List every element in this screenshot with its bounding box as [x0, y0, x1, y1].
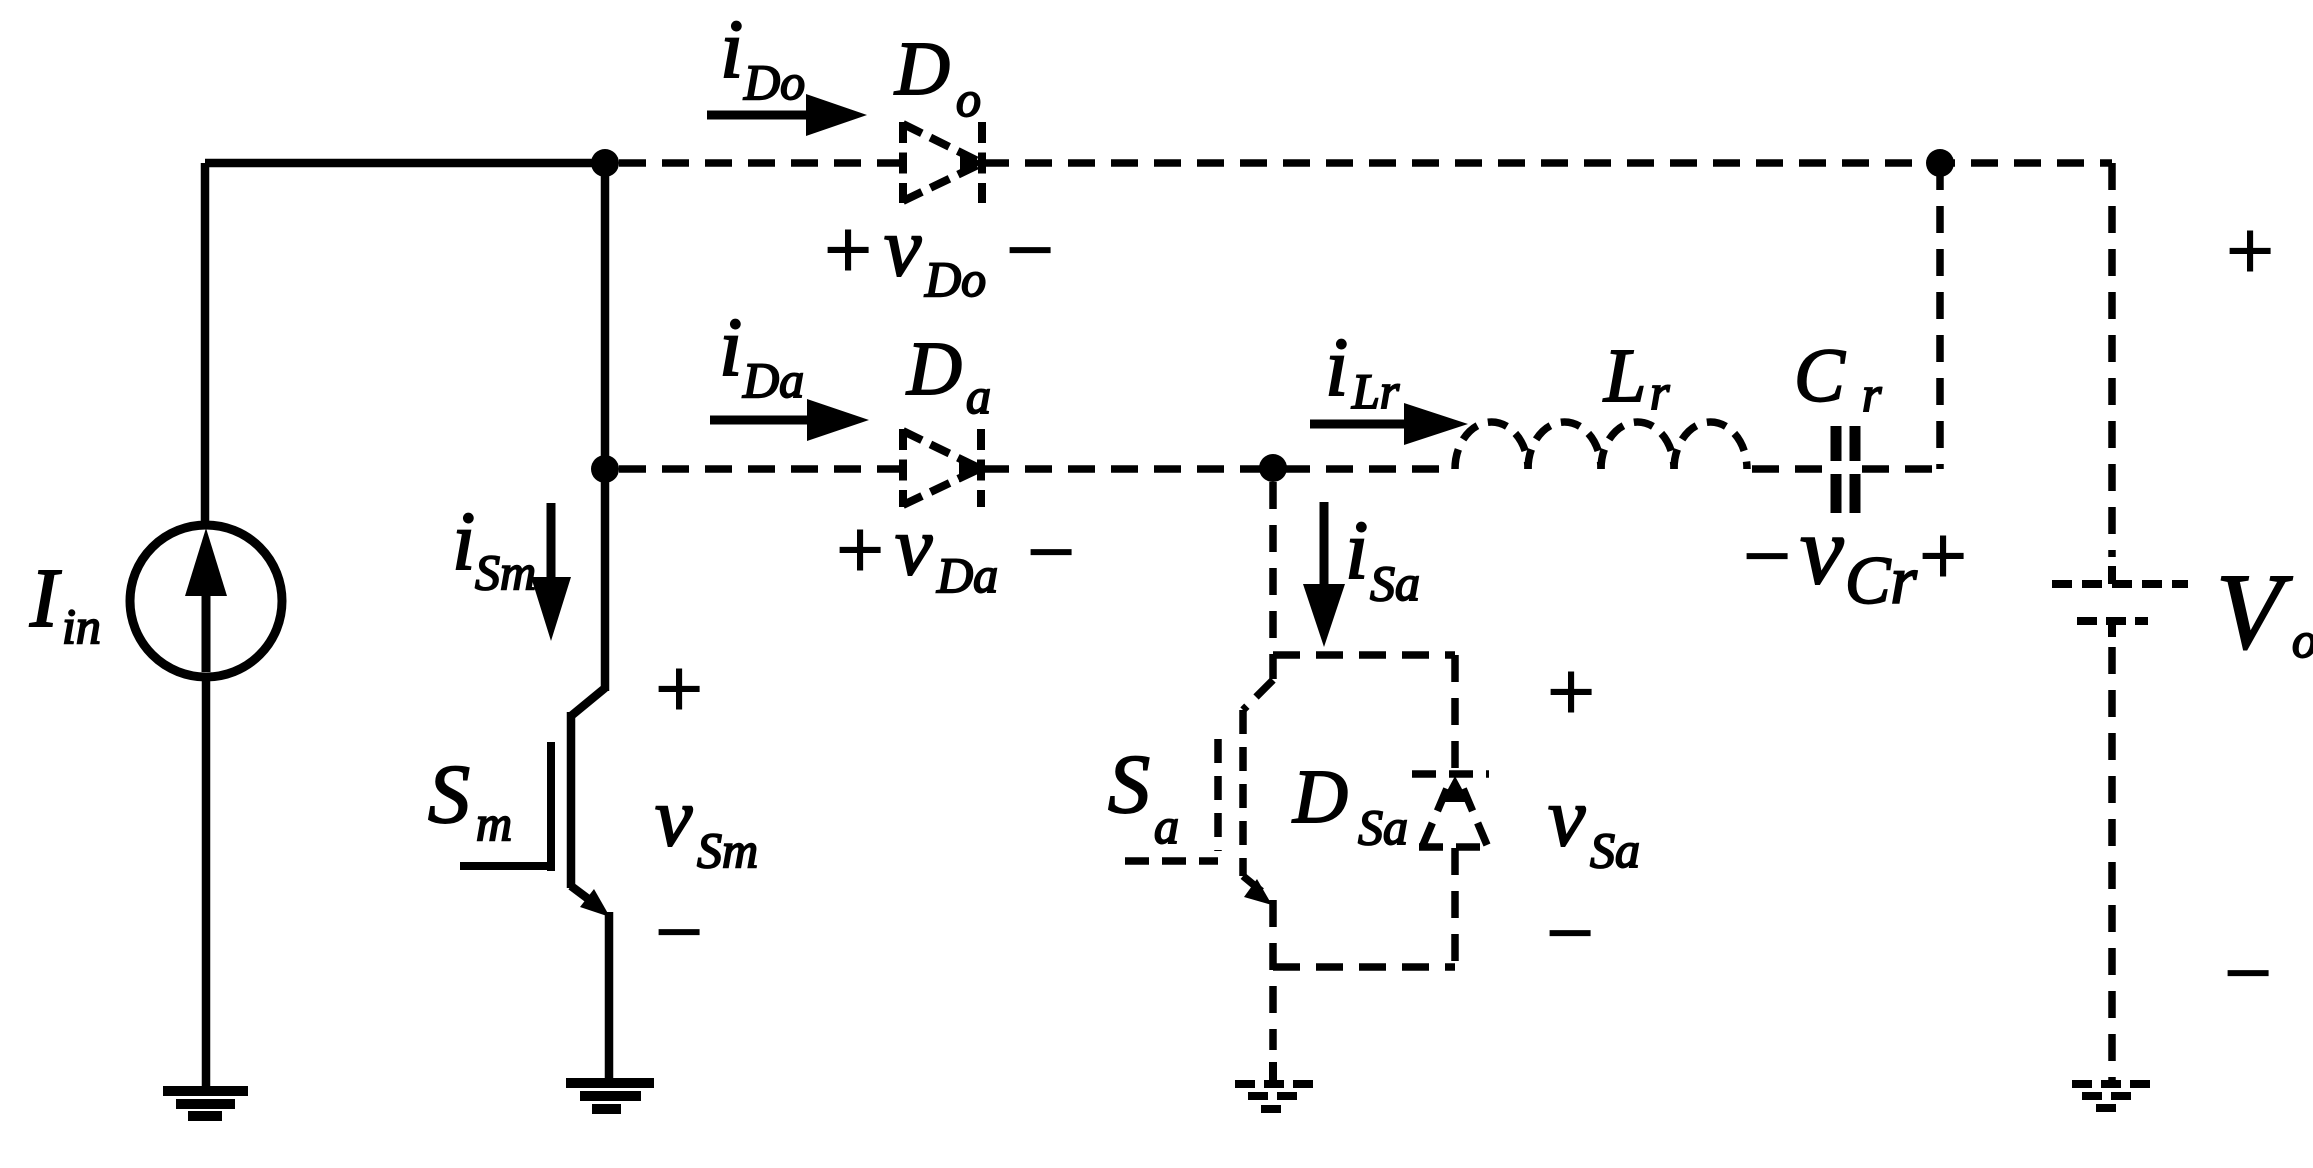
svg-text:Sm: Sm [475, 544, 536, 600]
svg-text:i: i [1345, 504, 1368, 597]
svg-text:+: + [819, 204, 876, 297]
svg-text:−: − [2219, 927, 2276, 1020]
svg-text:o: o [956, 71, 981, 127]
svg-text:Sm: Sm [697, 822, 758, 878]
svg-text:a: a [1154, 798, 1179, 854]
svg-text:Do: Do [743, 54, 805, 110]
svg-text:V: V [2216, 553, 2293, 672]
svg-text:+: + [1542, 646, 1599, 739]
svg-text:−: − [1738, 510, 1795, 603]
svg-text:−: − [1541, 887, 1598, 980]
svg-text:v: v [655, 771, 693, 864]
svg-text:m: m [476, 795, 512, 851]
svg-text:r: r [1650, 364, 1670, 420]
svg-text:Sa: Sa [1370, 555, 1420, 611]
svg-text:i: i [720, 3, 743, 96]
svg-text:Sa: Sa [1590, 822, 1640, 878]
svg-text:D: D [1292, 755, 1348, 839]
svg-text:in: in [62, 598, 101, 654]
svg-text:−: − [1022, 506, 1079, 599]
svg-text:Da: Da [742, 352, 804, 408]
svg-text:r: r [1862, 366, 1882, 422]
svg-text:+: + [1914, 510, 1971, 603]
svg-text:D: D [906, 327, 962, 411]
svg-text:v: v [1800, 497, 1844, 605]
svg-text:v: v [884, 201, 922, 294]
svg-text:Cr: Cr [1845, 542, 1917, 618]
svg-text:Da: Da [936, 547, 998, 603]
svg-text:Sa: Sa [1358, 799, 1408, 855]
svg-text:+: + [650, 643, 707, 736]
svg-text:i: i [719, 301, 742, 394]
svg-text:+: + [831, 504, 888, 597]
svg-text:i: i [452, 495, 475, 588]
svg-text:L: L [1603, 334, 1646, 418]
svg-text:S: S [1108, 738, 1150, 831]
svg-text:D: D [894, 27, 950, 111]
svg-text:v: v [1548, 771, 1586, 864]
svg-text:Lr: Lr [1351, 363, 1400, 419]
svg-text:v: v [895, 500, 933, 593]
svg-text:−: − [1001, 204, 1058, 297]
svg-text:o: o [2292, 612, 2313, 668]
svg-text:+: + [2221, 205, 2278, 298]
svg-text:a: a [966, 368, 991, 424]
svg-text:S: S [428, 748, 470, 841]
svg-text:−: − [650, 886, 707, 979]
svg-text:I: I [29, 552, 62, 645]
svg-text:i: i [1325, 321, 1348, 414]
svg-text:Do: Do [924, 251, 986, 307]
svg-text:C: C [1794, 334, 1846, 418]
